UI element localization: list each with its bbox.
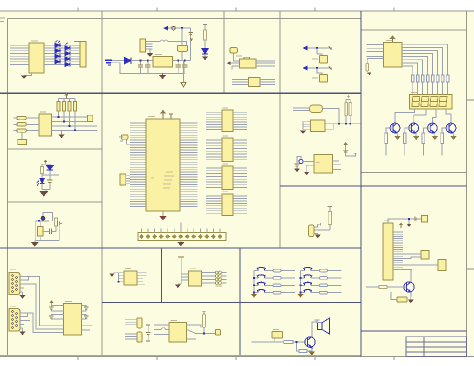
ground big	[39, 191, 48, 196]
wire horiz	[314, 229, 330, 231]
wire switch bottom	[181, 51, 183, 60]
zone tick top 5	[393, 8, 395, 12]
label2	[312, 77, 318, 79]
digit 4	[439, 97, 447, 107]
digit 1	[412, 97, 420, 107]
gnd arrow left	[110, 274, 115, 278]
input wires	[14, 118, 39, 140]
ground	[21, 76, 27, 80]
resistor R11	[349, 102, 352, 116]
label1	[312, 58, 318, 60]
circle sym	[172, 26, 176, 30]
7seg block bottom edge	[361, 172, 467, 174]
diode D5	[55, 54, 60, 58]
main divider y302.3	[102, 301, 361, 303]
diode D8	[65, 62, 70, 66]
crystal Y1	[121, 135, 128, 139]
pins right	[137, 273, 147, 282]
zone tick bottom 1	[77, 357, 79, 361]
cap C5 small	[188, 32, 193, 34]
MCU left pins	[130, 123, 146, 207]
DB9 P1 gnd	[20, 292, 26, 299]
collector wires	[395, 109, 451, 123]
label dashes	[138, 283, 145, 285]
module U4	[249, 77, 260, 86]
switch S9	[303, 290, 312, 293]
resistor RK6	[320, 277, 328, 280]
digit 3	[430, 97, 438, 107]
crystal wire2	[403, 257, 421, 258]
wire reg out rail	[173, 60, 191, 62]
divider power block right x224	[223, 11, 225, 93]
IC U16	[169, 323, 187, 342]
title block	[406, 337, 467, 357]
junction dot	[181, 27, 183, 29]
conn JP3	[137, 318, 142, 328]
junction dots	[58, 116, 76, 131]
corner label text	[0, 18, 5, 22]
block top edge row1	[7, 18, 361, 20]
pullup R4	[57, 102, 60, 112]
latch U9	[222, 166, 233, 190]
wire through	[36, 221, 49, 241]
regulator U2	[153, 57, 173, 67]
MCU right pins	[180, 123, 198, 207]
speaker top tick	[315, 319, 320, 321]
cap C1	[138, 61, 143, 74]
battery BT1	[105, 60, 112, 65]
resistor R16	[299, 349, 307, 352]
label mark	[316, 162, 320, 164]
cap bars	[294, 164, 299, 166]
diode D7	[55, 60, 60, 64]
sensor circle	[41, 216, 45, 220]
cap C3	[176, 61, 181, 74]
pullup R5	[63, 102, 66, 112]
zone tick top 2	[156, 8, 158, 12]
DB9 P2 gnd	[20, 328, 26, 335]
pins left	[178, 257, 189, 284]
vcc arrow	[343, 142, 347, 145]
DB9 P1 body	[9, 273, 20, 295]
small res top	[417, 218, 422, 220]
faint ref labels	[10, 41, 418, 330]
ground rail	[159, 74, 166, 80]
junction dots rail	[140, 60, 186, 62]
digit 2	[421, 97, 429, 107]
zone tick top 1	[77, 8, 79, 12]
power arrow	[399, 223, 403, 229]
pins right with jumper loops	[201, 273, 215, 284]
vcc cross	[347, 95, 350, 98]
top wire	[388, 219, 417, 223]
cap top C8	[422, 216, 428, 223]
resistor RB2	[403, 133, 406, 144]
right pin 2	[325, 124, 333, 130]
cap bars	[415, 217, 417, 222]
IC U6	[39, 114, 52, 136]
zener D11	[47, 166, 53, 170]
junction	[38, 220, 40, 222]
IR receiver body	[309, 225, 315, 237]
switch wire	[254, 292, 295, 294]
cap wires	[43, 226, 56, 231]
MCU U1 body	[146, 119, 180, 211]
pin2 wire	[306, 164, 314, 166]
transistor Q6	[305, 336, 315, 348]
switch wire	[301, 284, 342, 286]
collector wire	[312, 322, 318, 336]
gnd small	[407, 222, 411, 227]
resistor RK8	[320, 291, 328, 294]
switch wire	[301, 292, 342, 294]
gnd	[59, 130, 65, 138]
collector wire	[410, 269, 412, 282]
transistor Q1	[390, 123, 400, 133]
cap pair left	[49, 307, 54, 318]
wire down net1	[316, 48, 318, 54]
switch S4	[257, 282, 266, 285]
battery box	[438, 260, 446, 271]
pin header J2	[138, 233, 226, 241]
bottom comp	[397, 297, 407, 302]
resistor array RP1	[80, 42, 86, 68]
L wire to cap	[297, 157, 301, 164]
wire bend to box1	[317, 54, 322, 56]
switch wire	[301, 270, 342, 272]
emitter gnds	[395, 136, 457, 140]
wires resistors to display	[413, 82, 448, 94]
junction	[408, 218, 410, 220]
DB9 P2 pins	[12, 311, 18, 329]
cap C6	[47, 180, 52, 182]
switch S6	[303, 267, 312, 270]
resistor R12	[328, 212, 331, 225]
power arrow down	[181, 61, 186, 87]
junction	[300, 292, 302, 294]
resistor RK7	[320, 284, 328, 287]
switch box S1	[178, 46, 188, 52]
base resistors and wires	[386, 128, 449, 133]
left col divider y148.8	[7, 148, 101, 150]
emitter gnd	[308, 349, 315, 356]
cap C2	[145, 61, 150, 74]
transformer T1	[140, 39, 146, 52]
inductor L1	[310, 105, 323, 112]
U1 label marks	[151, 172, 174, 188]
resistor wire top	[329, 207, 331, 212]
keypad group 1 bus	[253, 271, 255, 294]
series cap	[50, 229, 52, 234]
label RP1	[74, 41, 80, 43]
DB9 P1 stubs	[20, 277, 24, 289]
bottom wires	[42, 182, 50, 191]
cap gnd	[294, 166, 300, 172]
transistor Q3	[428, 123, 438, 133]
top wire	[42, 162, 50, 164]
MAX232 U13	[64, 304, 82, 336]
input wires	[252, 338, 312, 351]
zone tick bottom 2	[156, 357, 158, 361]
resistor R3	[366, 63, 369, 71]
bottom rail wire	[111, 63, 185, 74]
label dashes	[216, 285, 223, 287]
ground	[31, 241, 39, 247]
IC U14	[124, 271, 137, 285]
gnd Q5	[408, 297, 414, 303]
cap C7 horiz	[58, 221, 63, 226]
U3 wires left	[228, 63, 239, 69]
wire down net2	[317, 68, 322, 75]
series bars	[343, 150, 348, 152]
wires right	[187, 325, 216, 339]
resistor R8	[41, 166, 44, 173]
vert arrow small	[190, 38, 194, 41]
resistor R9	[55, 218, 58, 226]
wires below resistors	[386, 144, 442, 156]
RTC IC U12	[383, 223, 393, 280]
gnd	[314, 234, 321, 239]
off-sheet stub right y100	[467, 99, 474, 101]
resistor R10	[345, 102, 348, 116]
hook wire	[314, 224, 321, 227]
conn JP4	[137, 332, 142, 342]
latch U8	[222, 138, 233, 162]
zone tick bottom 4	[314, 357, 316, 361]
U4 wires left	[232, 80, 248, 85]
input jumpers left	[17, 116, 27, 132]
diode D4	[65, 51, 70, 55]
wire R3 down	[367, 71, 369, 74]
keypad group 2 gnd	[297, 294, 303, 298]
junction net2	[316, 67, 318, 69]
wire left	[366, 286, 379, 288]
wire net2	[303, 67, 332, 69]
inductor squiggle	[153, 40, 187, 46]
main divider x361 full	[360, 11, 362, 357]
right pins	[333, 161, 341, 169]
small box U3a	[230, 48, 237, 53]
wire	[42, 164, 59, 180]
transistor Q4	[446, 123, 456, 133]
junction net1	[316, 47, 318, 49]
power arrow max232	[49, 300, 53, 305]
sheet left inner border	[6, 19, 8, 356]
eeprom U15	[188, 271, 201, 286]
hook tick	[354, 152, 358, 154]
input box	[272, 332, 283, 339]
wires left pair	[293, 108, 310, 110]
wire down from U3a	[234, 53, 240, 61]
wire net1	[303, 47, 332, 49]
DB9 P2 body	[9, 309, 20, 332]
J2 gnd	[177, 241, 184, 247]
small box right	[216, 329, 221, 335]
arrow net2	[303, 66, 308, 71]
base wire	[387, 286, 407, 288]
resistor R2 vertical	[204, 30, 207, 40]
7seg block top edge	[361, 29, 467, 31]
zone tick bottom 5	[393, 357, 395, 361]
out conn box	[87, 115, 92, 121]
bottom wire	[36, 221, 60, 241]
switch S7	[303, 275, 312, 278]
resistor RK5	[320, 269, 328, 272]
junction	[300, 277, 302, 279]
junction	[253, 292, 255, 294]
wire diode to reg	[131, 60, 153, 62]
gnd2	[304, 165, 309, 175]
wires J1 left	[10, 45, 29, 64]
right pin comb	[393, 232, 438, 269]
wire switch top	[181, 28, 183, 45]
diode D9	[124, 57, 131, 63]
DB9 P1 pins	[12, 275, 18, 293]
wire bottom comp	[391, 292, 397, 300]
divider x280 col	[279, 11, 281, 248]
divider x240	[239, 248, 241, 356]
switch S8	[303, 282, 312, 285]
switch wire	[254, 284, 295, 286]
diode D3	[55, 49, 60, 53]
wire gnd stub	[24, 73, 32, 76]
JP3 wires	[125, 320, 137, 325]
power tick	[44, 160, 47, 162]
connector J1	[29, 43, 44, 73]
divider x101.8 full	[101, 11, 103, 356]
zener D10	[202, 49, 208, 55]
end mark net2	[329, 67, 332, 70]
diode D6	[65, 57, 70, 61]
wires left	[154, 325, 169, 334]
resistor RK1	[273, 269, 281, 272]
left col divider y202	[7, 201, 101, 203]
wire	[204, 40, 206, 49]
resistor RB1	[385, 133, 388, 144]
DB9 P1 wires	[24, 277, 64, 330]
power arrow up	[64, 93, 68, 98]
R14 top tick	[202, 310, 206, 312]
switch S2	[257, 267, 266, 270]
driver IC U5	[384, 43, 402, 68]
cap pair right1	[84, 307, 89, 318]
resistor RK4	[273, 291, 281, 294]
label dash U5	[386, 49, 390, 51]
main divider y93.2	[0, 92, 361, 94]
off-sheet stub right y269	[467, 268, 474, 270]
zener branch wire	[204, 25, 206, 31]
junction	[253, 277, 255, 279]
power arrow U5	[391, 36, 395, 43]
cap wires left	[52, 306, 64, 320]
keypad group 1 gnd	[251, 294, 257, 298]
zener gnd	[202, 54, 208, 60]
zone tick top 4	[314, 8, 316, 12]
power rail	[59, 98, 76, 101]
crystal box	[421, 251, 429, 260]
J2 center stub	[180, 223, 182, 233]
output wires nested	[402, 44, 448, 75]
gnd R3	[368, 72, 372, 75]
sheet bottom border	[0, 356, 474, 358]
arrow left netflag	[163, 26, 168, 31]
switch S3	[257, 275, 266, 278]
long wire right	[325, 123, 360, 125]
jumper loops	[215, 271, 221, 284]
transformer gnd	[147, 49, 153, 57]
comp box2	[320, 75, 328, 83]
wires J1 right	[44, 45, 80, 64]
junction dots	[338, 123, 351, 125]
main divider y247.8	[0, 247, 361, 249]
filter U10	[311, 120, 325, 132]
relay box	[38, 227, 43, 237]
stubs right	[221, 273, 226, 284]
junction	[296, 341, 298, 343]
resistor RB3	[422, 133, 425, 144]
switch wire	[301, 277, 342, 279]
emitter wire	[410, 292, 412, 297]
pins left	[114, 273, 124, 282]
comp box1	[320, 56, 328, 64]
latch U7	[222, 110, 233, 131]
wire rail up right	[190, 28, 192, 61]
switch wire	[254, 277, 295, 279]
wire battery to diode	[112, 60, 124, 62]
junction	[203, 333, 205, 335]
arrow net1	[303, 46, 308, 51]
IC right row wires	[52, 117, 98, 130]
gnd left	[300, 131, 306, 135]
8 segment resistors	[411, 75, 448, 82]
arrow left	[227, 61, 231, 65]
junction	[300, 284, 302, 286]
divider x161.5	[161, 248, 163, 302]
U4 wires right	[260, 80, 275, 85]
7seg display DS1	[409, 94, 452, 109]
wire circle to IC	[303, 161, 314, 163]
resistor RK2	[273, 277, 281, 280]
filter left pins	[303, 122, 311, 130]
right wires	[82, 306, 93, 331]
U1 gnd bottom	[159, 211, 166, 221]
module U3 tab	[244, 57, 250, 59]
vcc T bar	[178, 256, 184, 258]
diode D2	[65, 46, 70, 50]
wire right of L1	[322, 109, 339, 124]
transformer pins	[146, 42, 153, 50]
DB9 P2 wires	[24, 313, 64, 332]
end mark net1	[329, 47, 332, 50]
diode D1	[55, 40, 70, 66]
input circle	[299, 159, 303, 163]
opamp U11	[314, 154, 333, 173]
junction	[253, 284, 255, 286]
junction	[118, 281, 120, 283]
zone tick top 3	[235, 8, 237, 12]
hook tick	[320, 223, 322, 226]
pullup R7	[74, 102, 77, 112]
resistor R15	[284, 340, 293, 343]
cap C9	[146, 325, 150, 341]
zener branch label	[203, 24, 207, 26]
conn JP2	[120, 174, 126, 185]
switch S5	[257, 290, 266, 293]
transistor Q2	[409, 123, 419, 133]
LED D12	[37, 178, 44, 185]
speaker LS1	[318, 318, 330, 334]
pullup drops	[59, 111, 76, 130]
